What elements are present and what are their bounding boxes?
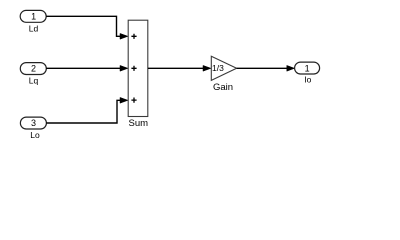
svg-text:2: 2	[31, 64, 36, 74]
inport 1	[20, 10, 46, 22]
sum block Sum	[128, 20, 148, 116]
svg-text:3: 3	[31, 118, 36, 128]
wire from inport 2 to Sum	[46, 65, 128, 71]
wire from inport 1 to Sum	[46, 16, 128, 39]
svg-text:Io: Io	[304, 75, 311, 85]
svg-text:1: 1	[31, 12, 36, 22]
svg-text:Lq: Lq	[29, 76, 39, 86]
gain block Gain	[211, 56, 236, 80]
inport 3	[20, 117, 46, 129]
wire from inport 3 to Sum	[46, 97, 128, 123]
wire from Sum to Gain	[148, 65, 211, 71]
svg-text:Ld: Ld	[29, 24, 39, 34]
svg-text:1/3: 1/3	[212, 63, 224, 73]
svg-text:Sum: Sum	[129, 118, 149, 129]
svg-text:Lo: Lo	[30, 130, 40, 140]
inport 2	[20, 63, 46, 75]
outport 1	[295, 62, 320, 74]
svg-text:1: 1	[305, 63, 310, 73]
wire from Gain to outport	[237, 65, 295, 71]
svg-text:Gain: Gain	[213, 82, 233, 93]
